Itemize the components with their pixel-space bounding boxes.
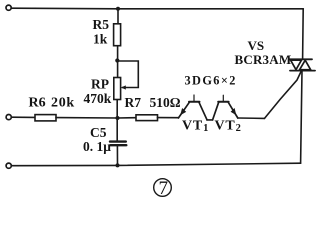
- svg-text:510Ω: 510Ω: [150, 95, 181, 110]
- svg-text:3DG6×2: 3DG6×2: [185, 74, 237, 88]
- svg-text:VS: VS: [248, 38, 265, 53]
- svg-text:1k: 1k: [93, 32, 108, 47]
- svg-text:RP: RP: [91, 77, 109, 92]
- svg-text:470k: 470k: [84, 91, 112, 106]
- svg-text:BCR3AM: BCR3AM: [235, 52, 292, 67]
- svg-text:R5: R5: [93, 17, 110, 32]
- svg-text:20k: 20k: [51, 95, 75, 110]
- svg-text:0. 1μ: 0. 1μ: [83, 139, 111, 154]
- svg-text:R7: R7: [125, 95, 142, 110]
- svg-text:R6: R6: [29, 95, 46, 110]
- svg-text:C5: C5: [90, 125, 107, 140]
- svg-text:7: 7: [159, 178, 169, 199]
